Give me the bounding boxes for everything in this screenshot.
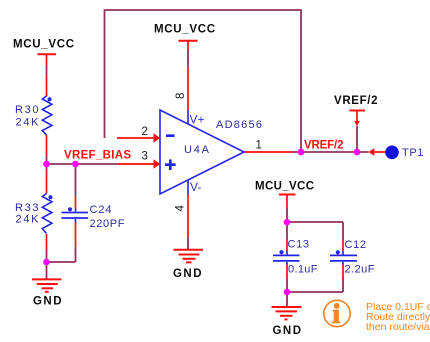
svg-text:MCU_VCC: MCU_VCC	[154, 24, 215, 36]
svg-text:8: 8	[175, 93, 187, 99]
svg-text:0.1uF: 0.1uF	[288, 264, 318, 276]
svg-text:R33: R33	[15, 202, 39, 214]
svg-text:24K: 24K	[16, 213, 40, 225]
svg-text:R30: R30	[15, 104, 39, 116]
svg-text:then route/via t: then route/via t	[366, 321, 430, 333]
svg-text:C13: C13	[288, 239, 310, 251]
svg-text:V-: V-	[190, 180, 201, 194]
svg-text:C12: C12	[345, 239, 367, 251]
svg-text:GND: GND	[173, 268, 202, 280]
svg-text:2: 2	[142, 126, 148, 138]
svg-text:GND: GND	[273, 325, 302, 337]
svg-text:VREF_BIAS: VREF_BIAS	[64, 150, 131, 162]
svg-text:VREF/2: VREF/2	[334, 95, 378, 107]
svg-text:2.2uF: 2.2uF	[345, 264, 375, 276]
svg-text:VREF/2: VREF/2	[304, 140, 344, 152]
svg-text:4: 4	[175, 205, 187, 212]
svg-text:C24: C24	[90, 204, 112, 216]
svg-text:AD8656: AD8656	[216, 119, 262, 131]
svg-text:24K: 24K	[16, 116, 40, 128]
svg-text:MCU_VCC: MCU_VCC	[255, 181, 314, 193]
svg-text:GND: GND	[33, 296, 62, 308]
svg-text:MCU_VCC: MCU_VCC	[13, 38, 74, 50]
svg-text:220PF: 220PF	[90, 218, 125, 230]
svg-text:TP1: TP1	[402, 147, 424, 159]
svg-text:3: 3	[142, 151, 148, 163]
svg-text:1: 1	[256, 140, 262, 152]
svg-text:U4A: U4A	[184, 144, 210, 156]
svg-text:V+: V+	[190, 112, 205, 126]
